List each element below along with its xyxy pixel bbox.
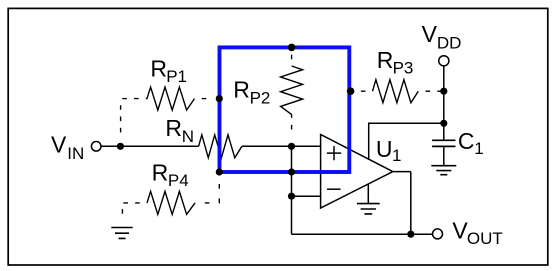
wire (dashed): RP1 left lead down to VIN node	[120, 100, 122, 133]
wire (dashed): RP4 left lead to ground	[122, 203, 147, 220]
wire: to op-amp - input	[292, 195, 321, 197]
svg-text:P3: P3	[393, 58, 414, 77]
wire (dashed): RP1 right lead to blue-box node	[195, 98, 214, 100]
wire (dashed): RP3 right lead to VDD rail	[418, 90, 444, 92]
svg-text:P2: P2	[250, 88, 271, 107]
wire: op-amp output	[393, 172, 411, 235]
svg-text:R: R	[150, 55, 167, 81]
node: VIN junction	[117, 143, 124, 150]
wire: VDD vertical rail	[443, 66, 445, 140]
wire: node column from + input node to feedback	[291, 146, 293, 234]
wire: op-amp ground pin	[367, 184, 369, 204]
svg-text:IN: IN	[67, 144, 84, 163]
wire: VIN terminal to RN	[101, 145, 199, 147]
node: RP3 right on VDD rail	[440, 88, 447, 95]
svg-text:1: 1	[392, 146, 401, 165]
wire: C1 to ground	[443, 146, 445, 165]
node: blue box bottom-left corner	[216, 168, 223, 175]
node: RP2 top on blue box top edge	[288, 44, 296, 52]
svg-text:U: U	[376, 136, 393, 162]
node: VOUT junction	[407, 231, 414, 238]
svg-text:N: N	[182, 127, 194, 146]
node: VDD rail / op-amp power / C1	[440, 120, 447, 127]
op-amp U1 - input symbol	[327, 188, 341, 190]
op-amp U1 + input symbol	[327, 146, 341, 160]
resistor RP1	[146, 87, 195, 110]
node: + input junction	[288, 143, 295, 150]
svg-text:1: 1	[474, 139, 483, 158]
highlight box around RP2	[220, 47, 350, 172]
svg-text:R: R	[165, 115, 182, 141]
node: RP1 right on blue box left edge	[216, 95, 223, 102]
wire (dashed): RP1 left lead horizontal	[121, 98, 146, 100]
wire: feedback bottom run	[292, 233, 433, 235]
op-amp U1	[321, 135, 393, 209]
terminal VOUT	[433, 229, 443, 239]
svg-text:V: V	[51, 132, 67, 158]
wire: op-amp power pin to VDD rail	[369, 123, 444, 159]
resistor RP3	[373, 80, 419, 103]
wire (dashed): RP4 right lead up to blue-box corner node	[195, 172, 219, 203]
ground (C1)	[431, 166, 456, 175]
resistor RP4	[147, 191, 195, 214]
svg-text:R: R	[233, 77, 250, 103]
svg-text:R: R	[377, 47, 394, 73]
svg-text:P4: P4	[168, 171, 189, 190]
node: blue box bottom edge junction	[288, 168, 295, 175]
svg-text:R: R	[152, 160, 169, 186]
svg-text:C: C	[458, 128, 475, 154]
terminal VDD	[439, 56, 449, 66]
svg-text:V: V	[422, 21, 438, 47]
wire (dashed): RP2 bottom lead	[291, 115, 293, 132]
svg-text:OUT: OUT	[467, 229, 503, 248]
wire (dashed): RP2 top lead	[291, 47, 293, 66]
capacitor C1	[432, 140, 455, 146]
wire: VOUT node to terminal	[411, 233, 433, 235]
node: RP3 left on blue box right edge	[347, 87, 355, 95]
resistor RP2	[281, 66, 303, 115]
wire (dashed): RP3 left lead from blue-box node	[351, 90, 373, 92]
svg-text:P1: P1	[166, 67, 187, 86]
terminal VIN	[91, 142, 101, 152]
ground (op-amp U1)	[357, 204, 380, 214]
node: - input junction	[288, 193, 295, 200]
svg-text:DD: DD	[437, 34, 462, 53]
resistor RN	[199, 135, 242, 158]
ground (RP4)	[111, 228, 132, 239]
wire: RN to op-amp + input	[242, 145, 321, 147]
